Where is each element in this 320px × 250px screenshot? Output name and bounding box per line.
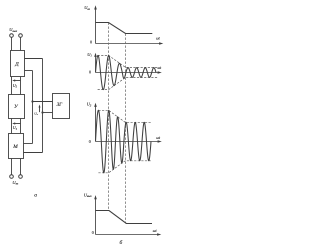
arrowhead U2	[12, 79, 15, 81]
plot3 y-axis arrowhead	[94, 103, 97, 107]
plot4 y-axis arrowhead	[94, 195, 97, 199]
block U (amplifier)	[9, 95, 25, 119]
plot4 y-axis	[95, 197, 97, 235]
plot2 envelope bottom dashed	[98, 78, 158, 90]
plot1 y-axis arrowhead	[94, 5, 97, 9]
wire pair U to M right	[20, 119, 22, 134]
svg-text:0: 0	[92, 230, 94, 235]
plot2 envelope top dashed	[98, 55, 158, 67]
wire pair D to U left	[11, 77, 13, 95]
voltage arrow U2	[14, 80, 21, 82]
svg-text:0: 0	[89, 70, 91, 75]
dashed vertical line 2	[125, 34, 127, 224]
plot1 x-axis	[96, 43, 162, 45]
svg-text:Д: Д	[14, 62, 19, 68]
wire terminal1 to block D	[11, 37, 13, 50]
plot3 x-axis arrowhead	[158, 140, 162, 143]
terminal circle top-left	[10, 34, 14, 38]
wire M to terminal3	[11, 159, 13, 175]
inner bus vertical	[32, 71, 34, 144]
svg-text:М: М	[12, 144, 18, 150]
svg-text:0: 0	[90, 40, 92, 45]
svg-text:0: 0	[89, 139, 91, 144]
wire inner bus to M	[24, 143, 33, 145]
wire pair U to M left	[11, 119, 13, 134]
plot4 x-axis	[96, 234, 160, 236]
plot3 envelope top dashed	[98, 110, 151, 122]
plot4 x-axis arrowhead	[157, 233, 161, 236]
terminal circle top-right	[19, 34, 23, 38]
block ZG (generator)	[53, 94, 70, 119]
wire D to inner bus	[25, 70, 33, 72]
plot1 y-axis	[95, 7, 97, 44]
dashed vertical line 1	[108, 23, 110, 211]
junction dot inner bus	[31, 100, 33, 102]
plot1 signal curve Uvx	[96, 23, 153, 34]
plot2 waveform U1	[96, 55, 157, 89]
junction dot outer bus	[41, 111, 43, 113]
wire outer bus to ZG	[43, 112, 53, 114]
wire outer bus to M	[24, 152, 43, 154]
plot2 y-axis	[95, 55, 97, 73]
block M (modulator)	[9, 134, 24, 159]
plot2 y-axis arrowhead	[94, 53, 97, 57]
voltage arrow U1	[14, 123, 21, 125]
wire pair D to U right	[20, 77, 22, 95]
axes of plots	[96, 7, 162, 235]
wire M to terminal4	[20, 159, 22, 175]
plot2 x-axis	[96, 72, 161, 74]
block D (demodulator)	[11, 51, 25, 77]
svg-text:а: а	[34, 193, 37, 199]
wire inner bus to ZG	[33, 101, 53, 103]
plot3 x-axis	[96, 141, 161, 143]
plot3 y-axis	[95, 105, 97, 142]
arrowhead Ug	[39, 105, 41, 108]
plot3 envelope bottom dashed	[98, 161, 151, 173]
arrowhead U1	[12, 122, 15, 124]
plot2 x-axis arrowhead	[158, 71, 162, 74]
plot1 x-axis arrowhead	[159, 42, 163, 45]
terminal circle bottom-left	[10, 175, 14, 179]
voltage arrow Ug	[39, 106, 41, 112]
outer bus vertical	[42, 59, 44, 153]
terminal circle bottom-right	[19, 175, 23, 179]
svg-text:б: б	[120, 239, 123, 246]
plot3 waveform U2	[96, 110, 152, 172]
wire terminal2 to block D	[20, 37, 22, 50]
plot4 signal curve Uvyh	[96, 211, 153, 224]
wire D to outer bus	[25, 58, 43, 60]
